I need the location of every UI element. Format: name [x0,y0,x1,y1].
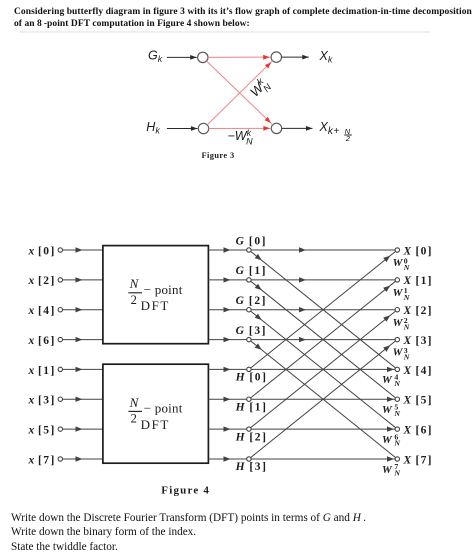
output node X[2] [395,308,399,312]
svg-text:2: 2 [131,412,137,426]
svg-text:N: N [403,323,410,332]
svg-text:X[4]: X[4] [403,365,433,377]
node G[0] [247,248,251,252]
svg-text:G[3]: G[3] [236,325,268,337]
wire G[1] to X[1] (gain 1) [251,279,395,281]
output node X[5] [395,397,399,401]
wire DFT box 2 to node H[0] [208,368,246,370]
svg-text:x[0]: x[0] [28,245,56,257]
input terminal x[0] [58,248,62,252]
svg-text:N: N [393,439,400,448]
wire G_k to top-left node [167,56,197,58]
output node X[4] [395,367,399,371]
output node X[7] [395,457,399,461]
svg-text:H[3]: H[3] [235,461,268,473]
wire G[0] to X[4] (diagonal) [251,251,396,368]
wire x[4] to DFT box [63,309,103,311]
wire G[3] to X[3] (gain 1) [251,339,395,341]
wire H[2] to X[6] (gain W) [251,428,395,430]
wire DFT box 2 to node H[1] [208,398,246,400]
svg-text:N: N [403,263,410,272]
wire G[2] to X[2] (gain 1) [251,309,395,311]
output node X[1] [395,278,399,282]
wire DFT box 1 to node G[0] [208,249,246,251]
svg-text:x[1]: x[1] [28,365,56,377]
wire red branch G_k to X_k+N/2 (diagonal) [207,61,273,125]
wire G[3] to X[7] (diagonal) [251,341,396,458]
svg-text:x[6]: x[6] [28,335,56,347]
wire G[2] to X[6] (diagonal) [251,311,396,428]
svg-text:X[6]: X[6] [403,425,433,437]
input terminal x[5] [58,427,62,431]
node H[3] [247,457,251,461]
wire H_k to bottom-left node [167,128,198,130]
wire H[0] to X[0] (diagonal, gain W) [251,251,396,368]
input terminal x[2] [58,278,62,282]
svg-text:WkN: WkN [246,75,274,103]
svg-text:W: W [393,317,404,329]
svg-text:Xk+: Xk+ [319,120,340,137]
svg-text:H[1]: H[1] [235,401,268,413]
wire H[1] to X[1] (diagonal, gain W) [251,281,396,398]
svg-text:x[7]: x[7] [28,454,56,466]
svg-text:X[7]: X[7] [403,454,433,466]
wire DFT box 1 to node G[1] [208,279,246,281]
wire DFT box 2 to node H[3] [208,458,246,460]
wire G[0] to X[0] (gain 1) [251,249,395,251]
svg-text:G[2]: G[2] [236,295,268,307]
svg-text:H[2]: H[2] [235,431,268,443]
input terminal x[4] [58,308,62,312]
svg-text:X[5]: X[5] [403,395,433,407]
svg-text:H[0]: H[0] [235,372,268,384]
wire red branch H_k to X_k+N/2 (gain -W_N^k) [209,127,272,129]
N/2-point DFT box 1 (inputs x[0],x[2],x[4],x[6]) [103,246,208,344]
wire red branch G_k to X_k (gain 1) [208,56,271,58]
svg-text:W: W [382,464,393,476]
svg-text:DFT: DFT [141,417,170,432]
wire red branch H_k to X_k (diagonal, gain W_N^k) [207,61,272,125]
N/2-point DFT box 2 (inputs x[1],x[3],x[5],x[7]) [103,364,208,463]
node H[2] [247,427,251,431]
svg-text:N: N [393,379,400,388]
node G[2] [247,308,251,312]
output node X[3] [395,337,399,341]
node H[0] [247,367,251,371]
wire x[3] to DFT box [63,398,103,400]
svg-text:x[5]: x[5] [28,425,56,437]
svg-text:W: W [393,257,404,269]
svg-text:x[4]: x[4] [28,305,56,317]
node G[1] [247,278,251,282]
wire DFT box 2 to node H[2] [208,428,246,430]
svg-text:W: W [382,434,393,446]
label W_N^k (rotated along diagonal) [246,75,274,103]
svg-text:N: N [393,469,400,478]
wire H[3] to X[7] (gain W) [251,458,395,460]
svg-text:W: W [382,404,393,416]
svg-text:N: N [393,409,400,418]
svg-text:N: N [129,395,140,410]
node G[3] [247,337,251,341]
svg-text:W: W [393,287,404,299]
svg-text:N: N [403,352,410,361]
wire H[1] to X[5] (gain W) [251,398,395,400]
node G_k input (fig3 top-left) [198,52,208,62]
input terminal x[7] [58,457,62,461]
node H_k input (fig3 bottom-left) [198,123,208,133]
svg-text:Figure 3: Figure 3 [202,151,235,160]
svg-text:− point: − point [144,401,183,416]
svg-text:− point: − point [144,282,183,297]
heading paragraph [14,6,474,31]
wire H[2] to X[2] (diagonal, gain W) [251,311,396,428]
input terminal x[3] [58,397,62,401]
wire x[7] to DFT box [63,458,103,460]
svg-text:Figure 4: Figure 4 [161,485,210,497]
svg-text:Hk: Hk [146,120,160,135]
svg-text:2: 2 [131,293,137,307]
wire x[5] to DFT box [63,428,103,430]
output node X[0] [395,248,399,252]
svg-text:N: N [129,276,140,291]
wire x[2] to DFT box [63,279,103,281]
node H[1] [247,397,251,401]
node X_k+N/2 output (fig3 bottom-right) [271,123,281,133]
svg-text:G[1]: G[1] [236,265,268,277]
svg-text:Xk: Xk [319,49,333,64]
svg-text:DFT: DFT [141,298,170,313]
wire top-right node to X_k [282,56,309,58]
input terminal x[6] [58,337,62,341]
svg-text:x[3]: x[3] [28,395,56,407]
svg-text:N: N [403,293,410,302]
wire x[6] to DFT box [63,339,103,341]
svg-text:2: 2 [345,134,351,143]
wire G[1] to X[5] (diagonal) [251,281,396,398]
input terminal x[1] [58,367,62,371]
svg-text:G[0]: G[0] [236,235,268,247]
wire DFT box 1 to node G[2] [208,309,246,311]
svg-text:W: W [382,374,393,386]
wire x[1] to DFT box [63,368,103,370]
question paragraph [11,511,461,555]
svg-text:−WkN: −WkN [228,128,254,147]
wire bottom-right node to X_k+N/2 [282,127,313,129]
svg-text:x[2]: x[2] [28,275,56,287]
wire H[3] to X[3] (diagonal, gain W) [251,341,396,458]
wire H[0] to X[4] (gain W) [251,368,395,370]
wire x[0] to DFT box [63,249,103,251]
node X_k output (fig3 top-right) [271,52,281,62]
svg-text:W: W [393,347,404,359]
svg-text:Gk: Gk [148,49,163,64]
wire DFT box 1 to node G[3] [208,339,246,341]
output node X[6] [395,427,399,431]
